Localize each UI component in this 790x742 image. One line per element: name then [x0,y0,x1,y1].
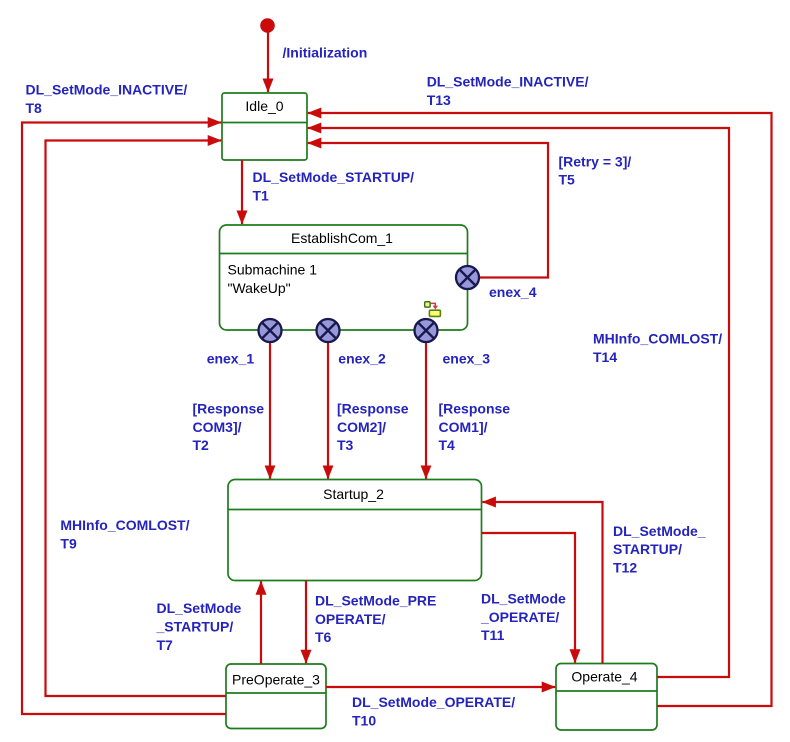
label T11 [480,591,566,644]
svg-text:/Initialization: /Initialization [283,45,368,61]
svg-text:T5: T5 [559,172,576,188]
exit point enex_4 [456,266,479,289]
exit point enex_2 [317,319,340,342]
svg-text:Startup_2: Startup_2 [323,486,384,502]
svg-text:MHInfo_COMLOST/: MHInfo_COMLOST/ [60,517,189,533]
svg-text:T14: T14 [593,349,617,365]
svg-text:T12: T12 [613,560,637,576]
state PreOperate_3 [226,664,326,729]
svg-text:DL_SetMode_OPERATE/: DL_SetMode_OPERATE/ [352,694,515,710]
label T13 [427,74,589,108]
transition T12 Operate_4 to Startup_2 [482,502,602,664]
svg-text:T9: T9 [60,535,77,551]
svg-text:_STARTUP/: _STARTUP/ [156,619,234,635]
svg-text:T11: T11 [481,627,505,643]
svg-text:_OPERATE/: _OPERATE/ [480,609,559,625]
transition T13 Operate_4 to Idle_0 [308,113,772,706]
transition T5 enex_4 to Idle_0 [308,143,548,278]
svg-text:enex_2: enex_2 [338,351,386,367]
svg-text:enex_1: enex_1 [207,351,255,367]
svg-text:OPERATE/: OPERATE/ [315,611,386,627]
label T9 [60,517,189,551]
state Idle_0 [222,93,307,160]
svg-text:DL_SetMode_: DL_SetMode_ [613,523,706,539]
svg-text:T7: T7 [157,637,174,653]
svg-text:DL_SetMode_STARTUP/: DL_SetMode_STARTUP/ [253,169,415,185]
transition T3 enex_2 to Startup_2 [327,343,329,479]
svg-text:[Response: [Response [337,401,409,417]
state Startup_2 [228,480,482,581]
transition T1 Idle_0 to EstablishCom_1 [241,160,243,224]
svg-text:Idle_0: Idle_0 [245,98,283,114]
label T2 [193,401,265,454]
state Operate_4 [556,664,657,731]
svg-text:COM1]/: COM1]/ [439,419,488,435]
label T3 [337,401,409,454]
svg-text:[Response: [Response [193,401,265,417]
label T6 [315,593,436,646]
label T8 [26,82,188,116]
linked subchart badge icon [425,302,441,317]
svg-text:T4: T4 [439,437,456,453]
transition T9 PreOperate_3 to Idle_0 [46,141,227,697]
svg-text:COM3]/: COM3]/ [193,419,242,435]
svg-text:DL_SetMode: DL_SetMode [481,591,566,607]
transition T8 PreOperate_3 to Idle_0 [22,123,226,715]
transition T2 enex_1 to Startup_2 [269,343,271,479]
svg-text:Operate_4: Operate_4 [571,669,637,685]
state EstablishCom_1 [220,225,468,330]
transition T14 Operate_4 to Idle_0 [308,128,729,677]
svg-text:enex_4: enex_4 [489,284,537,300]
initial state [260,18,275,92]
svg-text:T1: T1 [253,187,270,203]
svg-text:T8: T8 [26,100,43,116]
svg-text:DL_SetMode_PRE: DL_SetMode_PRE [315,593,436,609]
label T14 [593,331,722,365]
exit point enex_1 [259,319,282,342]
label T7 [156,600,242,653]
label T1 [253,169,415,203]
svg-text:T10: T10 [352,712,376,728]
svg-text:T3: T3 [337,437,354,453]
svg-text:[Response: [Response [439,401,511,417]
label T10 [352,694,515,728]
transition T7 PreOperate_3 to Startup_2 [260,581,262,664]
transition T10 PreOperate_3 to Operate_4 [326,686,555,688]
svg-text:COM2]/: COM2]/ [337,419,386,435]
transition T6 Startup_2 to PreOperate_3 [305,581,307,664]
transition T11 Startup_2 to Operate_4 [482,533,576,663]
svg-text:T2: T2 [193,437,210,453]
svg-text:T13: T13 [427,92,451,108]
exit point enex_3 [415,319,438,342]
svg-text:Submachine 1: Submachine 1 [228,262,318,278]
label T12 [613,523,706,576]
svg-text:[Retry = 3]/: [Retry = 3]/ [559,153,632,169]
label T5 [559,153,632,187]
svg-text:enex_3: enex_3 [443,351,491,367]
svg-text:DL_SetMode: DL_SetMode [157,600,242,616]
svg-text:T6: T6 [315,629,332,645]
svg-text:DL_SetMode_INACTIVE/: DL_SetMode_INACTIVE/ [26,82,188,98]
svg-text:PreOperate_3: PreOperate_3 [232,671,320,687]
svg-text:EstablishCom_1: EstablishCom_1 [291,230,393,246]
transition T4 enex_3 to Startup_2 [425,343,427,479]
svg-text:STARTUP/: STARTUP/ [613,541,682,557]
svg-text:DL_SetMode_INACTIVE/: DL_SetMode_INACTIVE/ [427,74,589,90]
svg-text:MHInfo_COMLOST/: MHInfo_COMLOST/ [593,331,722,347]
svg-text:"WakeUp": "WakeUp" [228,280,291,296]
label T4 [439,401,511,454]
